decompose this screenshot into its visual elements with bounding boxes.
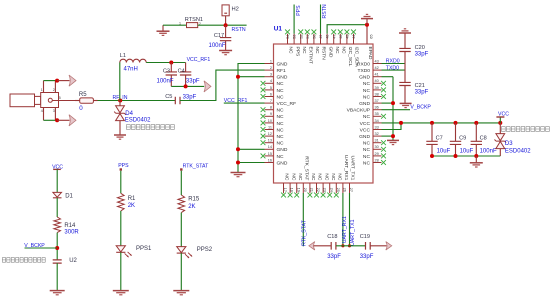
svg-text:PPS1: PPS1 xyxy=(136,246,152,252)
svg-text:33pF: 33pF xyxy=(186,78,200,84)
wire R14 to U2 xyxy=(56,233,58,260)
wire RTK_STAT to R15 xyxy=(180,171,182,195)
svg-text:NC: NC xyxy=(297,173,303,181)
svg-text:NC: NC xyxy=(341,47,347,55)
svg-text:16: 16 xyxy=(268,158,272,162)
svg-text:100nF: 100nF xyxy=(209,43,226,49)
svg-text:47nH: 47nH xyxy=(124,66,138,72)
svg-text:C3: C3 xyxy=(163,68,170,74)
svg-text:RSTN: RSTN xyxy=(322,4,328,18)
svg-text:40: 40 xyxy=(375,79,379,83)
wire connector shield bottom xyxy=(44,119,58,121)
svg-text:46: 46 xyxy=(339,35,343,39)
wire RTK_STAT stub from pin20 xyxy=(302,193,304,246)
svg-text:VCC_RF1: VCC_RF1 xyxy=(187,57,211,63)
svg-text:EPAD: EPAD xyxy=(367,47,373,60)
svg-text:33pF: 33pF xyxy=(183,94,197,100)
svg-text:PPS: PPS xyxy=(296,5,302,16)
wire RSTN riser xyxy=(320,5,322,34)
svg-text:RTK_STAT: RTK_STAT xyxy=(183,163,209,169)
connector J1 pin 5 xyxy=(52,100,75,102)
svg-text:13: 13 xyxy=(268,139,272,143)
wire VCC_RF stub to U1 pin 7 xyxy=(224,102,265,104)
LED PPS1 xyxy=(116,246,125,252)
capacitor C9 xyxy=(455,123,457,141)
svg-text:NC: NC xyxy=(363,81,371,87)
wire RSTN left segment xyxy=(163,24,186,26)
svg-text:NC: NC xyxy=(277,108,285,114)
svg-text:6: 6 xyxy=(270,92,272,96)
svg-text:ESD0402: ESD0402 xyxy=(125,117,151,123)
svg-text:7: 7 xyxy=(270,99,272,103)
svg-text:C4: C4 xyxy=(178,68,185,74)
ground left of RTSN1 xyxy=(162,25,164,31)
svg-text:33pF: 33pF xyxy=(360,254,374,260)
connector J1 pin 1 xyxy=(43,81,45,93)
svg-text:27: 27 xyxy=(349,188,354,192)
ground below PPS1 xyxy=(113,291,129,295)
svg-text:2K: 2K xyxy=(128,203,135,209)
svg-text:65: 65 xyxy=(368,34,373,38)
svg-text:NC: NC xyxy=(277,88,285,94)
svg-text:53: 53 xyxy=(293,35,297,39)
svg-text:NC: NC xyxy=(301,47,307,55)
wire connector shield top xyxy=(44,80,58,82)
junction VCC at C9 xyxy=(454,121,458,125)
svg-text:50: 50 xyxy=(313,35,317,39)
svg-text:C19: C19 xyxy=(360,234,370,240)
LED PPS2 xyxy=(177,247,186,253)
U1 top NC no-connect marks xyxy=(285,30,356,35)
svg-text:21: 21 xyxy=(310,188,315,192)
svg-text:2: 2 xyxy=(53,88,55,92)
junction UART_RX1 at C18 line xyxy=(341,244,344,247)
wire net V_BCKP left xyxy=(25,247,58,249)
U1 right pins with numbers and names xyxy=(347,59,382,166)
U1 left NC no-connect marks xyxy=(261,81,266,158)
svg-text:C5: C5 xyxy=(165,94,172,100)
svg-text:VCC: VCC xyxy=(498,111,509,117)
U1 bottom pins with numbers and names xyxy=(283,155,356,193)
svg-text:34: 34 xyxy=(375,119,379,123)
U1 right NC no-connect marks xyxy=(381,81,386,165)
wire L1 left leg to RF_IN xyxy=(119,63,121,101)
capacitor C7 xyxy=(431,123,433,141)
junction pin37 GND xyxy=(391,101,395,105)
junction C3 top xyxy=(169,61,173,65)
power port VCC right xyxy=(499,117,501,123)
svg-text:VBACKUP: VBACKUP xyxy=(347,108,370,114)
wire D1 to R14 xyxy=(56,198,58,217)
wire net RXD0 xyxy=(382,63,406,65)
svg-text:NC: NC xyxy=(363,154,371,160)
wire C3 C4 bottom rail xyxy=(171,85,204,87)
ground below D4 xyxy=(114,135,126,139)
ground arrow for C3 C4 xyxy=(204,81,211,92)
inductor L1 xyxy=(120,59,146,62)
svg-text:UART_TX1: UART_TX1 xyxy=(350,219,356,246)
wire PPS to R1 xyxy=(120,171,122,194)
svg-text:GND: GND xyxy=(359,101,370,107)
svg-text:NC: NC xyxy=(330,173,336,181)
svg-text:VCC_RF: VCC_RF xyxy=(277,101,297,107)
ground below C17 xyxy=(219,51,232,55)
svg-text:15: 15 xyxy=(268,152,272,156)
resistor R14 xyxy=(54,217,61,233)
svg-text:23: 23 xyxy=(323,188,328,192)
svg-text:100nF: 100nF xyxy=(480,149,497,155)
svg-text:UART_TX1: UART_TX1 xyxy=(350,155,356,180)
wire L1 to C3 C4 rail xyxy=(146,62,185,64)
wire VCC rail from pin34 xyxy=(382,122,501,124)
wire UART_TX1 from pin27 xyxy=(349,193,351,246)
svg-text:RSTN: RSTN xyxy=(321,47,327,61)
resistor R5 xyxy=(75,100,80,102)
supercap U2 xyxy=(53,260,62,263)
connector J1 pin 4 xyxy=(43,108,45,121)
svg-text:NC: NC xyxy=(363,141,371,147)
svg-text:GND: GND xyxy=(359,75,370,81)
ground below C21 xyxy=(400,103,412,107)
svg-text:VCC: VCC xyxy=(360,121,371,127)
svg-text:GND: GND xyxy=(277,75,288,81)
svg-text:NC: NC xyxy=(277,141,285,147)
svg-text:49: 49 xyxy=(319,35,323,39)
svg-text:UART_RX1: UART_RX1 xyxy=(343,155,349,181)
svg-text:25: 25 xyxy=(336,188,341,192)
svg-text:GND: GND xyxy=(359,134,370,140)
capacitor C18 xyxy=(331,242,336,250)
capacitor C20 xyxy=(404,33,406,48)
svg-text:NC: NC xyxy=(323,173,329,181)
svg-text:RTK_STAT: RTK_STAT xyxy=(302,219,308,245)
junction bottom rail C7 xyxy=(430,154,434,158)
svg-text:5: 5 xyxy=(59,96,61,100)
svg-text:9: 9 xyxy=(270,112,272,116)
svg-text:1: 1 xyxy=(179,21,181,25)
svg-text:PPS: PPS xyxy=(118,163,129,169)
svg-text:43: 43 xyxy=(375,59,379,63)
capacitor C4 xyxy=(185,63,187,72)
svg-text:52: 52 xyxy=(299,35,303,39)
capacitor C21 xyxy=(404,64,406,83)
U1 bottom NC no-connect marks xyxy=(281,193,339,198)
ground right rail xyxy=(387,140,399,144)
svg-text:NC: NC xyxy=(317,173,323,181)
junction pin32 GND xyxy=(391,134,395,138)
svg-text:GND: GND xyxy=(277,61,288,67)
svg-text:C21: C21 xyxy=(415,83,425,89)
svg-text:38: 38 xyxy=(375,92,379,96)
svg-text:33pF: 33pF xyxy=(415,51,429,57)
junction EPAD ground xyxy=(365,23,369,27)
annotation chinese: optional RF ESD protection diode xyxy=(127,125,131,130)
svg-text:32: 32 xyxy=(375,132,379,136)
wire UART_RX1 from pin26 xyxy=(342,193,344,246)
ground arrow top shield xyxy=(57,80,69,82)
diode D3 ESD0402 TVS xyxy=(499,123,501,134)
wire GND pins 41 37 32 rail xyxy=(382,76,394,78)
svg-text:NC: NC xyxy=(363,94,371,100)
svg-text:100nF: 100nF xyxy=(157,78,174,84)
svg-text:8: 8 xyxy=(270,106,272,110)
capacitor C5 xyxy=(175,97,180,105)
wire C5 to U1 pin RF1 xyxy=(180,70,265,100)
svg-text:NC: NC xyxy=(337,173,343,181)
svg-text:NC: NC xyxy=(290,173,296,181)
svg-text:GND: GND xyxy=(327,47,333,58)
svg-text:18: 18 xyxy=(290,188,295,192)
svg-text:3: 3 xyxy=(270,73,272,77)
svg-text:5: 5 xyxy=(270,86,272,90)
wire U1 left GND rail xyxy=(238,64,265,173)
svg-text:VCC: VCC xyxy=(360,127,371,133)
svg-text:V_BCKP: V_BCKP xyxy=(410,105,431,111)
wire D4 to ground xyxy=(119,121,121,135)
svg-text:GND: GND xyxy=(277,147,288,153)
svg-text:GND: GND xyxy=(277,160,288,166)
svg-text:3: 3 xyxy=(53,109,55,113)
diode D1 xyxy=(53,192,62,197)
capacitor C17 xyxy=(225,25,227,37)
svg-text:47: 47 xyxy=(332,35,336,39)
svg-text:H2: H2 xyxy=(232,6,239,12)
svg-text:U1: U1 xyxy=(274,26,283,33)
svg-text:28: 28 xyxy=(375,158,379,162)
svg-text:D1: D1 xyxy=(65,193,73,199)
svg-text:12: 12 xyxy=(268,132,272,136)
wire R1 to PPS1 xyxy=(120,211,122,246)
wire PPS1 to ground xyxy=(120,252,122,290)
junction left rail pin3 xyxy=(236,75,240,79)
wire U2 to ground xyxy=(56,263,58,290)
junction bottom shield xyxy=(55,118,59,122)
svg-text:51: 51 xyxy=(306,35,310,39)
diode D4 ESD0402 TVS xyxy=(119,101,121,106)
svg-text:RF1: RF1 xyxy=(277,68,287,74)
resistor RTSN1 xyxy=(187,23,198,28)
U1 EPAD pin 65 xyxy=(366,25,368,44)
svg-text:PPS2: PPS2 xyxy=(197,247,213,253)
junction UART_TX1 at C19 line xyxy=(348,244,351,247)
junction V_BCKP node xyxy=(55,246,59,250)
svg-text:300R: 300R xyxy=(64,229,79,235)
op-amp U1 module body xyxy=(274,44,374,183)
svg-text:EXTINT: EXTINT xyxy=(308,47,314,64)
svg-text:NC: NC xyxy=(310,173,316,181)
svg-text:NC: NC xyxy=(277,134,285,140)
junction C4 bottom xyxy=(184,84,188,88)
svg-text:48: 48 xyxy=(326,35,330,39)
svg-text:NC: NC xyxy=(277,154,285,160)
connector J1 pin 3 xyxy=(54,108,56,121)
svg-text:D3: D3 xyxy=(505,141,513,147)
svg-text:0: 0 xyxy=(79,105,83,112)
svg-text:37: 37 xyxy=(375,99,379,103)
wire PPS riser xyxy=(293,5,295,34)
svg-text:R1: R1 xyxy=(128,196,136,202)
svg-text:31: 31 xyxy=(375,139,379,143)
svg-text:33: 33 xyxy=(375,125,379,129)
wire net RF_IN xyxy=(98,100,176,102)
wire GND pin48 to EPAD xyxy=(327,25,367,34)
junction RSTN at H2/C17 xyxy=(224,23,228,27)
ground left rail xyxy=(231,173,246,177)
svg-text:PPS: PPS xyxy=(294,47,300,58)
annotation chinese: optional power ESD protection diode xyxy=(502,127,506,132)
svg-text:1: 1 xyxy=(41,88,43,92)
junction VCC at C8 xyxy=(474,121,478,125)
svg-text:10: 10 xyxy=(268,119,272,123)
svg-text:U2: U2 xyxy=(69,258,77,264)
ground arrow bottom shield xyxy=(57,119,69,121)
resistor R15 xyxy=(178,195,185,213)
svg-text:17: 17 xyxy=(283,188,288,192)
svg-text:RTK_STAT: RTK_STAT xyxy=(304,156,310,180)
ground above EPAD xyxy=(366,19,368,25)
svg-text:2K: 2K xyxy=(188,204,195,210)
wire between C18 and C19 xyxy=(336,245,365,247)
wire VCC pin33 riser xyxy=(382,123,402,130)
junction VCC riser xyxy=(399,121,403,125)
svg-text:C17: C17 xyxy=(214,33,224,39)
svg-text:2: 2 xyxy=(270,66,272,70)
svg-text:NC: NC xyxy=(277,81,285,87)
svg-text:NC: NC xyxy=(277,121,285,127)
svg-text:11: 11 xyxy=(268,125,272,129)
svg-text:NC: NC xyxy=(363,114,371,120)
svg-text:UART_RX1: UART_RX1 xyxy=(342,216,348,243)
svg-text:33pF: 33pF xyxy=(327,254,341,260)
svg-text:29: 29 xyxy=(375,152,379,156)
svg-text:NC: NC xyxy=(277,127,285,133)
wire RSTN right segment xyxy=(198,24,247,26)
capacitor C8 xyxy=(475,123,477,141)
svg-text:19: 19 xyxy=(296,188,301,192)
wire PPS2 to ground xyxy=(180,253,182,290)
wire VCC to D1 xyxy=(56,169,58,192)
svg-text:44: 44 xyxy=(352,35,356,39)
junction RF_IN at D4/L1 xyxy=(118,99,122,103)
svg-text:54: 54 xyxy=(286,35,290,39)
wire net TXD0 xyxy=(382,69,406,71)
svg-text:R5: R5 xyxy=(79,92,87,98)
svg-text:39: 39 xyxy=(375,86,379,90)
svg-text:26: 26 xyxy=(343,188,348,192)
junction left rail pin16 xyxy=(236,161,240,165)
ground below PPS2 xyxy=(173,291,189,295)
capacitor C19 xyxy=(366,242,371,250)
svg-text:C20: C20 xyxy=(415,45,425,51)
svg-text:36: 36 xyxy=(375,106,379,110)
svg-text:NC: NC xyxy=(277,114,285,120)
svg-text:V_BCKP: V_BCKP xyxy=(24,243,45,249)
junction VCC at C7 xyxy=(430,121,434,125)
wire R15 to PPS2 xyxy=(180,213,182,247)
svg-text:4: 4 xyxy=(270,79,272,83)
ground arrow right of C19 xyxy=(370,245,386,247)
ground above C20 xyxy=(399,29,411,33)
svg-text:33pF: 33pF xyxy=(415,89,429,95)
wire net V_BCKP at pin36 xyxy=(382,109,411,111)
connector J1 SMA body xyxy=(10,93,59,108)
svg-text:RXD0: RXD0 xyxy=(386,58,400,64)
svg-text:TXD0: TXD0 xyxy=(386,65,399,71)
svg-text:L1: L1 xyxy=(120,53,126,59)
svg-text:I2C_SDA: I2C_SDA xyxy=(354,47,360,68)
svg-text:30: 30 xyxy=(375,145,379,149)
svg-text:NC: NC xyxy=(334,47,340,55)
svg-text:45: 45 xyxy=(346,35,350,39)
svg-text:C18: C18 xyxy=(327,234,337,240)
capacitor C3 xyxy=(170,63,172,72)
svg-text:NC: NC xyxy=(284,173,290,181)
resistor R1 xyxy=(118,193,125,211)
junction top shield xyxy=(55,79,59,83)
svg-text:TXD0: TXD0 xyxy=(357,68,370,74)
svg-text:RSTN: RSTN xyxy=(232,27,246,33)
ground below U2 xyxy=(50,291,65,295)
svg-text:I2C_SCL: I2C_SCL xyxy=(347,47,353,67)
svg-text:C8: C8 xyxy=(480,135,487,141)
svg-text:NC: NC xyxy=(363,147,371,153)
junction bottom rail C8 xyxy=(474,154,478,158)
ground arrow left of C18 xyxy=(309,242,315,250)
annotation chinese: supercap for backup supply xyxy=(2,258,5,263)
component H2 test point xyxy=(222,5,229,16)
junction bottom rail C9 xyxy=(454,154,458,158)
junction left rail pin14 xyxy=(236,147,240,151)
svg-text:NC: NC xyxy=(288,47,294,55)
svg-text:NC: NC xyxy=(363,160,371,166)
U1 left pins with numbers and names xyxy=(265,59,297,166)
svg-text:NC: NC xyxy=(363,88,371,94)
U1 top pins with numbers and names xyxy=(286,34,360,68)
svg-text:10uF: 10uF xyxy=(437,149,451,155)
ground below C8 xyxy=(475,156,477,163)
svg-text:C7: C7 xyxy=(436,135,443,141)
junction VCC at D3 xyxy=(498,121,502,125)
svg-text:14: 14 xyxy=(268,145,272,149)
wire decoupling bottom rail xyxy=(432,155,500,157)
svg-text:4: 4 xyxy=(41,109,43,113)
svg-text:C9: C9 xyxy=(459,135,466,141)
svg-text:R14: R14 xyxy=(64,223,76,229)
connector J1 pin 2 xyxy=(54,81,56,93)
svg-text:D4: D4 xyxy=(125,111,133,117)
svg-text:ESD0402: ESD0402 xyxy=(505,148,531,154)
svg-text:R15: R15 xyxy=(188,196,200,202)
svg-text:NC: NC xyxy=(277,94,285,100)
svg-text:42: 42 xyxy=(375,66,379,70)
svg-text:35: 35 xyxy=(375,112,379,116)
svg-text:NC: NC xyxy=(314,47,320,55)
svg-text:41: 41 xyxy=(375,73,379,77)
svg-text:10uF: 10uF xyxy=(460,149,474,155)
svg-text:1: 1 xyxy=(270,59,272,63)
svg-text:22: 22 xyxy=(316,188,321,192)
